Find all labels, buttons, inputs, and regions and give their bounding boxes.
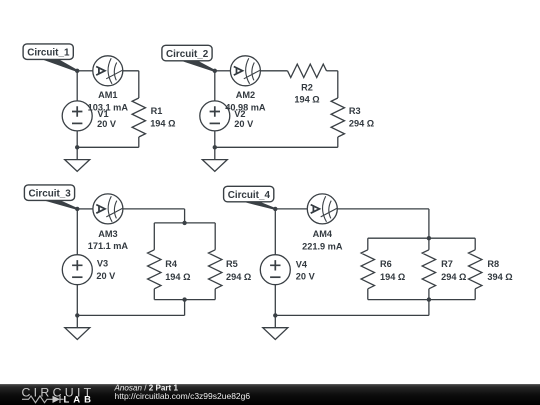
svg-text:194 Ω: 194 Ω xyxy=(380,272,405,282)
svg-text:R4: R4 xyxy=(165,259,178,269)
wire xyxy=(275,314,429,316)
voltage source V2 xyxy=(200,101,230,131)
wire xyxy=(215,146,338,148)
junction top bus xyxy=(427,236,431,240)
svg-text:294 Ω: 294 Ω xyxy=(441,272,466,282)
svg-text:221.9 mA: 221.9 mA xyxy=(302,241,343,251)
wire xyxy=(215,70,231,72)
svg-text:20 V: 20 V xyxy=(96,271,116,281)
wire xyxy=(153,289,155,300)
wire xyxy=(474,238,476,250)
resistor R6 xyxy=(361,250,374,289)
wire xyxy=(428,289,430,300)
wire xyxy=(337,137,339,147)
junction xyxy=(273,313,277,317)
svg-text:V1: V1 xyxy=(97,109,108,119)
wire xyxy=(274,209,276,255)
svg-text:20 V: 20 V xyxy=(234,119,254,129)
svg-text:Circuit_4: Circuit_4 xyxy=(228,190,271,201)
svg-text:Circuit_1: Circuit_1 xyxy=(27,48,70,59)
svg-text:394 Ω: 394 Ω xyxy=(487,272,512,282)
wire xyxy=(123,70,139,72)
net flag Circuit_1 xyxy=(23,44,78,72)
node Circuit_2 xyxy=(213,69,217,73)
wire xyxy=(76,131,78,147)
svg-text:194 Ω: 194 Ω xyxy=(294,94,319,104)
svg-text:R7: R7 xyxy=(441,259,453,269)
wire xyxy=(214,71,216,101)
svg-text:R1: R1 xyxy=(151,106,163,116)
wire xyxy=(153,223,155,250)
ground xyxy=(65,147,90,171)
resistor R4 xyxy=(148,250,161,289)
wire xyxy=(76,71,78,101)
svg-text:V4: V4 xyxy=(296,260,308,270)
svg-text:AM4: AM4 xyxy=(313,229,333,239)
junction xyxy=(75,145,79,149)
wire bottom bus xyxy=(368,299,475,301)
ammeter AM2 xyxy=(230,56,260,86)
wire bottom bus xyxy=(154,299,215,301)
svg-text:40.98 mA: 40.98 mA xyxy=(225,102,266,112)
junction xyxy=(75,313,79,317)
wire xyxy=(77,70,93,72)
ground xyxy=(65,315,90,339)
wire top bus xyxy=(368,237,475,239)
wire xyxy=(138,71,140,98)
voltage source V1 xyxy=(62,101,92,131)
wire xyxy=(214,223,216,250)
node Circuit_3 xyxy=(75,207,79,211)
resistor R3 xyxy=(331,98,344,137)
logo wire-resistor-diode glyph xyxy=(22,396,64,403)
ground xyxy=(202,147,227,171)
wire xyxy=(327,70,338,72)
svg-text:R6: R6 xyxy=(380,259,392,269)
junction xyxy=(213,145,217,149)
svg-text:R5: R5 xyxy=(226,259,238,269)
svg-text:R3: R3 xyxy=(349,106,361,116)
wire xyxy=(214,289,216,300)
svg-text:V3: V3 xyxy=(97,259,108,269)
svg-text:194 Ω: 194 Ω xyxy=(165,272,190,282)
svg-text:Circuit_2: Circuit_2 xyxy=(166,49,209,60)
wire xyxy=(428,209,430,238)
wire xyxy=(428,238,430,250)
wire xyxy=(184,209,186,223)
svg-text:AM3: AM3 xyxy=(98,229,117,239)
svg-text:AM2: AM2 xyxy=(236,90,255,100)
svg-text:294 Ω: 294 Ω xyxy=(349,118,374,128)
wire xyxy=(77,314,184,316)
wire xyxy=(367,238,369,250)
wire xyxy=(474,289,476,300)
junction bottom bus xyxy=(182,297,186,301)
svg-text:R8: R8 xyxy=(487,259,499,269)
svg-text:V2: V2 xyxy=(234,109,245,119)
ammeter AM4 xyxy=(307,194,337,224)
wire xyxy=(77,208,93,210)
resistor R5 xyxy=(209,250,222,289)
voltage source V3 xyxy=(62,255,92,285)
net flag Circuit_4 xyxy=(224,186,276,210)
ammeter AM3 xyxy=(93,194,123,224)
svg-text:AM1: AM1 xyxy=(98,90,117,100)
svg-text:LAB: LAB xyxy=(64,395,96,405)
wire xyxy=(337,71,339,98)
wire xyxy=(274,285,276,316)
ground xyxy=(263,315,288,339)
net flag Circuit_2 xyxy=(162,45,216,71)
resistor R2 xyxy=(288,64,327,77)
junction bottom bus xyxy=(427,297,431,301)
wire xyxy=(275,208,307,210)
net flag Circuit_3 xyxy=(24,185,78,210)
svg-text:294 Ω: 294 Ω xyxy=(226,272,251,282)
wire xyxy=(76,209,78,255)
resistor R8 xyxy=(469,250,482,289)
wire xyxy=(77,146,139,148)
ammeter AM1 xyxy=(93,56,123,86)
wire xyxy=(184,300,186,316)
resistor R1 xyxy=(132,98,145,137)
svg-text:R2: R2 xyxy=(301,83,313,93)
wire xyxy=(367,289,369,300)
wire xyxy=(123,208,185,210)
node Circuit_4 xyxy=(273,207,277,211)
junction top bus xyxy=(182,221,186,225)
svg-text:194 Ω: 194 Ω xyxy=(150,118,175,128)
resistor R7 xyxy=(422,250,435,289)
svg-text:171.1 mA: 171.1 mA xyxy=(88,241,129,251)
wire xyxy=(428,300,430,316)
voltage source V4 xyxy=(260,255,290,285)
node Circuit_1 xyxy=(75,69,79,73)
svg-text:20 V: 20 V xyxy=(296,272,316,282)
wire xyxy=(76,285,78,316)
wire top bus xyxy=(154,222,215,224)
wire xyxy=(214,131,216,147)
svg-text:Circuit_3: Circuit_3 xyxy=(29,189,72,200)
svg-text:http://circuitlab.com/c3z99s2u: http://circuitlab.com/c3z99s2ue82g6 xyxy=(115,391,251,401)
wire xyxy=(260,70,287,72)
wire xyxy=(138,137,140,147)
svg-text:20 V: 20 V xyxy=(97,119,117,129)
wire xyxy=(337,208,429,210)
